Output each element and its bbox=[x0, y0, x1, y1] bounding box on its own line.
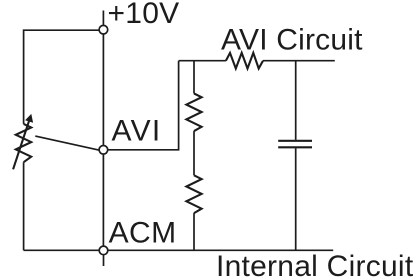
wire: between upper and lower resistors bbox=[193, 131, 195, 175]
resistor lower vertical bbox=[186, 175, 201, 213]
svg-text:AVI: AVI bbox=[112, 114, 162, 147]
wire: ACM wire right of node bbox=[108, 249, 333, 251]
wire: vertical bus +10V node to AVI node bbox=[102, 34, 104, 145]
capacitor bottom lead bbox=[295, 148, 297, 250]
potentiometer arrow shaft bbox=[13, 120, 29, 169]
node ACM terminal circle bbox=[99, 246, 108, 255]
wire: top AVI Circuit wire right segment bbox=[263, 60, 335, 62]
wire: ACM wire left of node bbox=[24, 249, 100, 251]
wire: top AVI Circuit wire left segment bbox=[179, 60, 226, 62]
svg-text:Internal Circuit: Internal Circuit bbox=[216, 250, 414, 280]
svg-text:AVI Circuit: AVI Circuit bbox=[221, 24, 363, 57]
wire: potentiometer lower lead down to ACM wire bbox=[23, 162, 25, 250]
resistor horizontal in AVI Circuit wire bbox=[226, 53, 263, 69]
node +10V terminal circle bbox=[99, 25, 108, 34]
capacitor plate 1 bbox=[278, 140, 312, 142]
svg-text:+10V: +10V bbox=[108, 0, 180, 30]
wire: branch from top wire down to upper resistor bbox=[193, 61, 195, 94]
wire: wiper line from potentiometer to AVI node bbox=[35, 136, 99, 150]
wire: stub below ACM node bbox=[103, 255, 105, 266]
wire: +10V node left to left branch corner and down to potentiometer bbox=[24, 30, 100, 124]
node AVI terminal circle bbox=[99, 146, 108, 155]
wire: stub above +10V node bbox=[102, 11, 104, 26]
resistor upper vertical bbox=[186, 94, 201, 132]
potentiometer arrowhead bbox=[25, 114, 33, 123]
wire: vertical bus AVI node to ACM node bbox=[102, 154, 104, 246]
capacitor plate 2 bbox=[278, 146, 312, 148]
capacitor top lead bbox=[295, 61, 297, 140]
potentiometer zigzag body bbox=[16, 124, 31, 162]
wire: lower resistor down to ACM wire bbox=[193, 213, 195, 250]
svg-text:ACM: ACM bbox=[109, 216, 177, 249]
wire: AVI node right then up to top wire bbox=[108, 61, 179, 150]
